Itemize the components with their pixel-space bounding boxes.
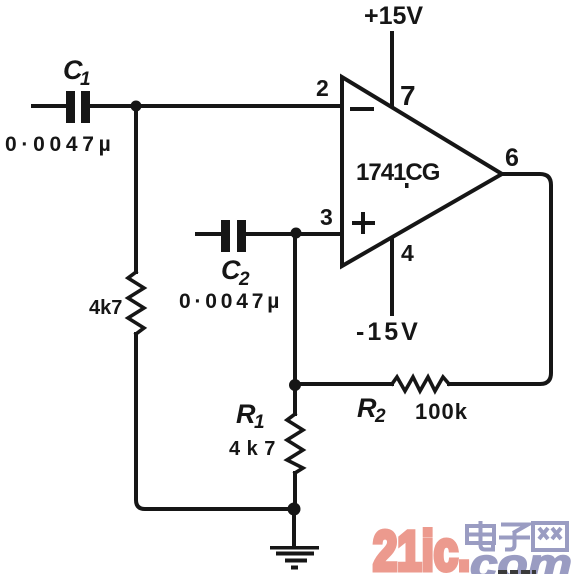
svg-text:100k: 100k	[415, 399, 468, 424]
svg-text:4: 4	[401, 240, 414, 266]
svg-text:1741CG: 1741CG	[356, 159, 440, 186]
svg-text:+15V: +15V	[364, 2, 423, 30]
svg-text:4k7: 4k7	[229, 438, 282, 460]
svg-text:-15V: -15V	[356, 318, 421, 346]
svg-text:2: 2	[316, 75, 329, 101]
svg-text:3: 3	[320, 204, 333, 230]
svg-text:com: com	[470, 540, 572, 574]
svg-text:0·0047µ: 0·0047µ	[5, 133, 115, 156]
svg-text:C: C	[221, 255, 241, 285]
svg-text:4k7: 4k7	[89, 297, 122, 319]
svg-text:R: R	[236, 399, 256, 429]
svg-text:1: 1	[80, 69, 91, 90]
svg-text:6: 6	[505, 144, 519, 172]
svg-text:21ic.: 21ic.	[373, 520, 470, 574]
svg-text:0·0047µ: 0·0047µ	[179, 290, 283, 313]
svg-text:7: 7	[400, 80, 416, 111]
svg-text:2: 2	[374, 406, 386, 427]
svg-text:R: R	[357, 393, 377, 423]
svg-text:2: 2	[238, 269, 250, 290]
svg-text:1: 1	[254, 412, 265, 433]
